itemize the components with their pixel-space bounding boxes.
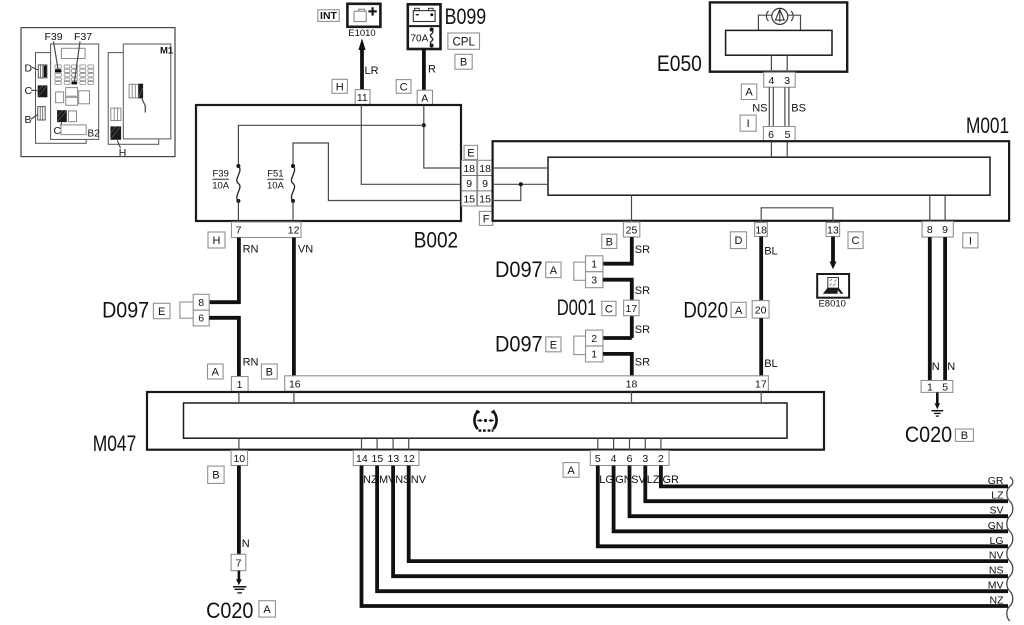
wire fuse F51 to pin 12 — [292, 201, 294, 221]
svg-text:C: C — [400, 81, 408, 93]
M001 wire pin 18 row — [493, 167, 548, 169]
svg-text:18: 18 — [463, 163, 475, 175]
label box H — [332, 79, 347, 93]
svg-text:E: E — [467, 147, 474, 159]
wire LZ to right — [645, 466, 1008, 502]
wire NZ to right — [362, 466, 1009, 607]
svg-text:N: N — [932, 361, 940, 373]
label box I — [963, 233, 978, 248]
wire NS to right — [393, 466, 1008, 577]
wire GR to right — [661, 466, 1008, 487]
B002 internal wire fuse F51 to pin 15 — [293, 143, 461, 201]
svg-text:C: C — [54, 125, 62, 137]
svg-text:D: D — [25, 62, 33, 74]
svg-text:1: 1 — [237, 379, 243, 391]
svg-text:CPL: CPL — [453, 37, 476, 49]
svg-text:NS: NS — [989, 565, 1004, 577]
svg-text:A: A — [567, 465, 575, 477]
M001 wires to pins 8 9 — [929, 195, 931, 221]
svg-text:B: B — [266, 367, 273, 379]
M001 inner module — [548, 157, 990, 195]
M047 wires bottom pins — [238, 438, 240, 450]
label box A — [208, 364, 224, 379]
wire BL upper — [759, 237, 763, 301]
svg-text:14: 14 — [356, 453, 368, 465]
svg-text:B2: B2 — [88, 129, 101, 140]
fuse box B002 — [196, 105, 461, 221]
svg-text:F: F — [483, 213, 490, 225]
E050 inner module — [726, 30, 832, 55]
svg-text:BL: BL — [764, 358, 777, 370]
svg-text:D020: D020 — [683, 298, 728, 323]
M001 wire pin 15 row joining node — [493, 184, 521, 200]
wire GN to right — [614, 466, 1008, 532]
svg-text:VN: VN — [298, 243, 313, 255]
battery icon — [413, 11, 435, 22]
svg-text:I: I — [747, 118, 750, 130]
svg-text:F37: F37 — [74, 31, 92, 43]
inset body computer panel M1 — [123, 44, 171, 139]
svg-text:1: 1 — [927, 381, 933, 393]
ground C020 A — [238, 571, 241, 580]
svg-text:8: 8 — [927, 224, 933, 236]
svg-text:H: H — [119, 147, 127, 159]
svg-text:I: I — [969, 235, 972, 247]
inset fuse panel B2 — [51, 44, 99, 139]
wire fuse F39 to pin 7 — [237, 201, 239, 221]
wire N from pin 8 — [928, 237, 932, 380]
svg-text:C020: C020 — [905, 422, 952, 447]
pin strip 4 3 of E050 — [764, 72, 796, 87]
svg-text:INT: INT — [320, 10, 338, 22]
svg-text:H: H — [213, 235, 221, 247]
wire SR from pin 25 — [603, 237, 632, 264]
pin strip 8 9 of M001 — [922, 222, 953, 238]
svg-text:B099: B099 — [445, 4, 487, 29]
label box I — [740, 115, 756, 131]
svg-text:A: A — [735, 305, 743, 317]
svg-text:18: 18 — [626, 379, 638, 391]
label box B — [208, 466, 224, 483]
label box A — [741, 84, 757, 100]
pin strip 5 4 6 3 2 of M047 — [590, 451, 669, 466]
wire NS double line — [768, 87, 770, 126]
B002 junction node — [422, 123, 426, 127]
label box B — [602, 234, 617, 248]
svg-text:A: A — [421, 92, 428, 104]
M001 wires from pins 6 5 — [770, 142, 772, 158]
svg-text:5: 5 — [942, 381, 948, 393]
svg-text:9: 9 — [482, 178, 488, 190]
wire LG to right — [598, 466, 1008, 547]
svg-text:GN: GN — [988, 520, 1004, 532]
svg-text:A: A — [550, 265, 558, 277]
label box C — [396, 80, 411, 94]
label box E — [464, 145, 478, 159]
svg-text:3: 3 — [591, 275, 597, 287]
label box INT — [318, 10, 339, 22]
pin strip 14 15 13 12 of M047 — [353, 451, 419, 466]
svg-text:10: 10 — [233, 453, 245, 465]
label box A — [563, 463, 579, 478]
svg-text:SV: SV — [989, 505, 1003, 517]
pin strip 16 18 17 of M047 — [285, 376, 769, 392]
svg-text:13: 13 — [388, 453, 400, 465]
svg-text:70A: 70A — [411, 33, 429, 44]
svg-text:D097: D097 — [102, 297, 149, 322]
svg-text:B: B — [212, 470, 219, 482]
svg-text:16: 16 — [289, 379, 301, 391]
inset bottom slot — [61, 125, 86, 135]
diagnostic tester E8010 icon — [817, 274, 849, 298]
ground C020 B — [936, 392, 939, 404]
svg-text:6: 6 — [768, 129, 774, 141]
svg-text:3: 3 — [784, 75, 790, 87]
label box C — [848, 232, 863, 249]
svg-text:17: 17 — [755, 379, 767, 391]
svg-text:M001: M001 — [966, 113, 1009, 138]
inset center relay cluster — [66, 88, 78, 97]
connector D097 E pins 2 1 — [574, 336, 586, 355]
M001 wire pin 9 row — [493, 183, 548, 185]
svg-text:D097: D097 — [495, 332, 543, 357]
svg-text:15: 15 — [463, 193, 475, 205]
svg-text:2: 2 — [591, 333, 597, 345]
pin 1 of M047 — [231, 377, 248, 392]
aerial module E050 — [710, 2, 847, 71]
wire BS double line — [784, 87, 786, 126]
M001 internal link pins 18 13 — [761, 208, 833, 222]
M001 wire to pin 25 — [631, 195, 633, 222]
pin 18 of M001 — [755, 223, 768, 237]
svg-text:3: 3 — [642, 453, 648, 465]
svg-text:H: H — [336, 81, 344, 93]
svg-text:A: A — [212, 367, 220, 379]
svg-text:C: C — [605, 304, 613, 316]
svg-text:10A: 10A — [267, 181, 285, 192]
svg-text:9: 9 — [466, 178, 472, 190]
svg-text:A: A — [745, 87, 753, 99]
TPMS module M047 — [147, 392, 824, 450]
svg-text:11: 11 — [357, 92, 368, 104]
svg-text:NV: NV — [411, 474, 427, 486]
svg-text:B: B — [25, 114, 32, 126]
svg-text:A: A — [263, 604, 271, 616]
B002 internal wire from pin 11 to pin 9 — [361, 105, 460, 184]
svg-text:LZ: LZ — [647, 474, 660, 486]
M047 wires top pins — [238, 392, 240, 404]
svg-text:D097: D097 — [495, 257, 543, 282]
body computer M001 — [493, 141, 1010, 221]
connector E pins 18 9 15 between B002 and M001 — [462, 160, 477, 206]
label box E — [546, 337, 561, 352]
inset connector I with leader — [129, 84, 138, 98]
label box F — [479, 211, 492, 225]
svg-text:MV: MV — [988, 580, 1004, 592]
svg-text:M1: M1 — [160, 46, 174, 57]
inset connector slots on rear panel — [111, 108, 121, 121]
label box C — [602, 301, 616, 315]
svg-text:LR: LR — [365, 65, 379, 77]
fuse F51 10A — [291, 164, 295, 168]
inset fuse F39 highlighted — [55, 69, 62, 72]
svg-text:BS: BS — [791, 102, 806, 114]
svg-text:E: E — [158, 306, 165, 318]
inset B2 top slot — [61, 48, 85, 58]
svg-text:D: D — [735, 235, 743, 247]
pin strip 6 5 of M001 — [763, 127, 795, 142]
svg-text:13: 13 — [827, 224, 839, 236]
svg-text:8: 8 — [198, 297, 204, 309]
svg-text:C: C — [852, 235, 860, 247]
svg-text:6: 6 — [627, 453, 633, 465]
wire SR into D097 E — [603, 336, 632, 340]
svg-text:5: 5 — [785, 129, 791, 141]
ground point symbol E1010 — [347, 4, 380, 27]
svg-text:17: 17 — [626, 303, 638, 315]
wire N from pin 10 — [237, 466, 241, 555]
pin 11 of B002 — [355, 90, 370, 105]
svg-text:6: 6 — [198, 313, 204, 325]
aerial symbol — [772, 8, 788, 24]
svg-text:10A: 10A — [212, 181, 230, 192]
pin strip 7 12 of B002 — [232, 222, 302, 238]
svg-text:9: 9 — [942, 224, 948, 236]
inset left rear panel — [36, 53, 87, 144]
svg-text:D001: D001 — [557, 295, 597, 320]
M001 junction node — [519, 182, 523, 186]
label box A — [731, 302, 746, 317]
svg-text:NV: NV — [989, 550, 1004, 562]
svg-text:2: 2 — [658, 453, 664, 465]
label box B — [955, 429, 973, 441]
svg-text:M047: M047 — [93, 431, 137, 456]
svg-text:B: B — [460, 57, 467, 69]
wire VN — [292, 238, 296, 376]
wire RN upper — [209, 238, 239, 303]
svg-text:R: R — [428, 64, 436, 76]
label box D — [730, 232, 746, 249]
svg-text:SR: SR — [635, 285, 650, 297]
svg-text:RN: RN — [243, 357, 259, 369]
svg-text:5: 5 — [595, 453, 601, 465]
svg-text:12: 12 — [288, 225, 300, 237]
svg-text:BL: BL — [764, 246, 777, 258]
svg-text:N: N — [947, 361, 955, 373]
B002 internal wire junction to fuse F39 — [238, 125, 423, 166]
pin 7 of C020 A — [231, 554, 246, 570]
svg-text:B002: B002 — [414, 228, 458, 253]
svg-text:E050: E050 — [657, 51, 702, 76]
svg-text:18: 18 — [479, 163, 491, 175]
svg-text:20: 20 — [755, 304, 767, 316]
svg-text:15: 15 — [372, 453, 384, 465]
wire continuation break wavy line — [1007, 477, 1013, 621]
wire NV to right — [409, 466, 1008, 562]
svg-text:GR: GR — [663, 474, 680, 486]
svg-text:N: N — [242, 538, 250, 550]
svg-text:F51: F51 — [267, 169, 283, 180]
aerial wires to module — [758, 15, 771, 30]
label box H — [208, 232, 225, 248]
svg-text:E1010: E1010 — [348, 28, 375, 39]
connector D020 A pin 20 — [752, 301, 769, 319]
svg-text:E: E — [550, 339, 557, 351]
inset fuse F37 highlighted — [72, 82, 78, 85]
inset fuse-box location diagram frame — [21, 28, 175, 157]
svg-text:E8010: E8010 — [818, 299, 845, 310]
wire SR from D097 A to D001 — [603, 280, 632, 301]
svg-text:C: C — [25, 85, 33, 97]
TPMS icon — [474, 411, 496, 429]
wire SV to right — [630, 466, 1009, 517]
B002 internal wire from pin A to pin 18 — [424, 105, 461, 168]
svg-text:F39: F39 — [45, 31, 63, 43]
connector D001 C pin 17 — [624, 300, 640, 316]
label box CPL — [448, 33, 480, 49]
wire R from battery — [422, 49, 426, 91]
fuse F39 10A — [236, 164, 240, 168]
pin 10 of M047 — [231, 451, 247, 466]
wire SR from D097 E to M047 pin 18 — [603, 354, 632, 376]
svg-text:LZ: LZ — [991, 490, 1004, 502]
wire MV to right — [377, 466, 1008, 592]
svg-text:SR: SR — [635, 324, 650, 336]
svg-text:25: 25 — [626, 224, 638, 236]
pin 13 of M001 — [826, 223, 840, 237]
svg-text:RN: RN — [243, 243, 259, 255]
svg-text:4: 4 — [611, 453, 617, 465]
pin strip 1 5 of C020 B — [921, 381, 953, 393]
pin 25 of M001 — [623, 222, 639, 237]
svg-text:1: 1 — [591, 349, 597, 361]
inset connector C black — [57, 110, 67, 122]
svg-text:F39: F39 — [213, 169, 229, 180]
svg-text:12: 12 — [403, 453, 415, 465]
label box A — [546, 262, 561, 278]
M047 inner module — [184, 403, 788, 438]
svg-text:B: B — [606, 236, 613, 248]
label box B — [261, 364, 277, 379]
wire arrow to diagnostic socket — [831, 237, 835, 263]
svg-text:GR: GR — [988, 475, 1004, 487]
svg-text:15: 15 — [479, 193, 491, 205]
svg-text:SR: SR — [635, 357, 650, 369]
svg-text:1: 1 — [591, 259, 597, 271]
svg-text:I: I — [144, 103, 147, 115]
inset connector H black with leader — [110, 126, 121, 139]
connector D097 E pins 8 6 — [180, 302, 194, 318]
label box B — [455, 54, 472, 69]
svg-text:NZ: NZ — [990, 595, 1005, 607]
pin A of B002 — [417, 90, 432, 105]
svg-text:NS: NS — [752, 102, 767, 114]
inset fuse grid — [55, 65, 62, 68]
E050 pins wires — [770, 55, 772, 72]
connector D097 A pins 1 3 — [574, 262, 586, 280]
battery B099 — [408, 4, 441, 49]
wire LR arrow to E1010 — [360, 49, 364, 90]
svg-text:B: B — [961, 430, 968, 442]
wire BL lower — [759, 318, 763, 376]
svg-text:7: 7 — [236, 557, 242, 569]
inset right rear panel — [108, 53, 159, 145]
svg-text:7: 7 — [236, 225, 242, 237]
svg-text:C020: C020 — [206, 598, 253, 623]
label box A — [259, 601, 276, 617]
wire N from pin 9 — [943, 237, 947, 380]
label box E — [153, 303, 170, 318]
wire RN lower — [209, 318, 239, 377]
wire SR through D001 — [630, 300, 634, 338]
inset slot beside C — [69, 111, 77, 122]
svg-text:18: 18 — [755, 224, 767, 236]
svg-text:4: 4 — [768, 75, 774, 87]
svg-text:SR: SR — [635, 244, 650, 256]
svg-text:LG: LG — [989, 535, 1003, 547]
